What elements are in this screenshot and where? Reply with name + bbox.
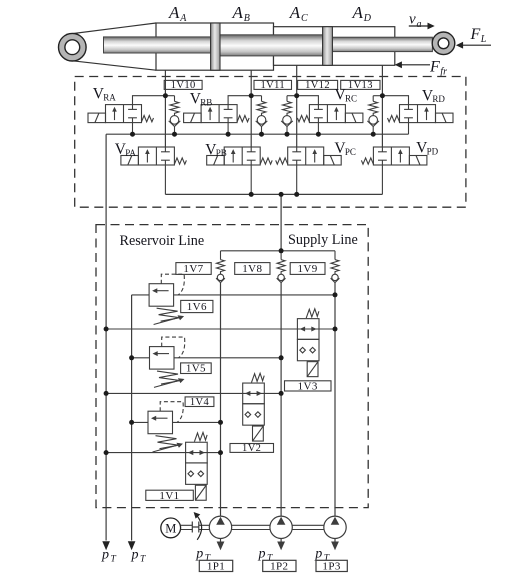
shaft 1P1 to 1P2: [232, 525, 270, 529]
svg-text:T: T: [111, 555, 117, 565]
check valve 1V8: [277, 251, 286, 283]
junction chamber B: [249, 93, 254, 98]
relief drain line (second left vertical): [131, 295, 133, 541]
junction chamber A: [163, 93, 168, 98]
svg-text:v: v: [409, 12, 416, 28]
relief valve 1V4: [148, 402, 183, 452]
wire 1V4 outlet to pump column 1: [173, 421, 221, 423]
svg-text:1V13: 1V13: [348, 80, 373, 91]
label Supply Line: [288, 232, 358, 248]
supply line drop: [280, 194, 282, 250]
wire 1V5 outlet to pump column 2: [174, 357, 281, 359]
check valve 1V10: [169, 96, 181, 135]
junction 1V3 line to reservoir: [104, 327, 109, 332]
svg-text:1V1: 1V1: [159, 490, 179, 502]
label p_T 3: [195, 547, 211, 564]
check valve 1V11: [256, 96, 268, 135]
svg-text:RB: RB: [200, 97, 212, 107]
junction 1V3 line to column 3: [333, 327, 338, 332]
svg-text:1V12: 1V12: [305, 80, 330, 91]
wire V_RA bottom port: [132, 123, 134, 135]
unloading line 1V1 (reservoir to column 1): [106, 452, 220, 454]
pump column 2 line: [280, 283, 282, 516]
label box 1V10: [164, 80, 202, 91]
junction V_RB to reservoir bus: [226, 132, 231, 137]
check valve 1V9: [331, 251, 340, 283]
junction 1V2 line to column 2: [279, 391, 284, 396]
junction 1V4 inlet to drain: [129, 420, 134, 425]
svg-text:p: p: [131, 548, 139, 563]
piston rod stage 2: [220, 35, 323, 56]
svg-text:p: p: [258, 547, 266, 562]
wire V_RC top port: [297, 96, 319, 105]
valve V_PB: [207, 147, 273, 165]
valve 1V3: [297, 309, 319, 377]
svg-text:RC: RC: [345, 93, 357, 103]
wire 1V6 outlet to pump column 3: [174, 294, 335, 296]
valve 1V1: [186, 432, 208, 500]
wire V_PC bottom port: [296, 165, 298, 194]
svg-text:Supply Line: Supply Line: [288, 232, 358, 248]
label box 1V4: [185, 397, 214, 408]
junction chamber D: [380, 93, 385, 98]
left mounting eye: [59, 33, 87, 61]
label box 1V12: [298, 80, 338, 91]
check valve 1V12: [281, 96, 293, 135]
svg-text:1V7: 1V7: [183, 263, 203, 275]
chamber B line: [250, 70, 252, 147]
chamber D line: [381, 65, 383, 147]
pump unit dashed enclosure: [96, 225, 368, 508]
label V_RD: [422, 87, 446, 104]
piston 1: [211, 23, 220, 70]
label A_B: [232, 3, 250, 24]
svg-text:L: L: [480, 34, 487, 45]
valve V_PC: [276, 147, 342, 165]
junction supply drop: [279, 192, 284, 197]
svg-text:A: A: [289, 3, 301, 22]
svg-text:1V6: 1V6: [187, 301, 207, 313]
pump column 1 line: [220, 283, 222, 516]
label box 1V7: [176, 263, 211, 276]
unloading line 1V3 (reservoir to column 3): [106, 328, 335, 330]
label box 1V13: [341, 80, 380, 91]
wire check 1V11 top link: [251, 95, 261, 97]
label Reservoir Line: [120, 233, 205, 249]
wire V_RB top port: [228, 96, 251, 105]
piston 2: [323, 27, 333, 66]
svg-text:F: F: [429, 59, 440, 76]
svg-text:A: A: [352, 3, 364, 22]
svg-text:p: p: [101, 548, 109, 563]
pump 1P1: [209, 516, 231, 550]
wire check 1V13 top link: [373, 95, 382, 97]
label V_PD: [416, 140, 439, 157]
valve V_PA: [121, 147, 187, 165]
label box 1V5: [181, 363, 212, 375]
junction check 1V12 to reservoir bus: [285, 132, 290, 137]
svg-text:PA: PA: [125, 148, 136, 158]
label V_PB: [205, 141, 227, 158]
label V_RC: [335, 87, 358, 104]
svg-text:1V5: 1V5: [186, 363, 206, 375]
wire 1V4 left port: [132, 421, 148, 423]
wire check 1V12 top link: [287, 95, 297, 97]
label V_PA: [115, 141, 137, 158]
junction check 1V10 to reservoir bus: [172, 132, 177, 137]
label box 1P3: [316, 560, 347, 572]
label p_T 4: [258, 547, 274, 564]
junction 1V6 outlet to column 3: [333, 292, 338, 297]
junction chamber C: [294, 93, 299, 98]
label p_T 5: [314, 547, 330, 564]
wire V_RC bottom port: [317, 123, 319, 135]
junction 1V5 outlet to column 2: [279, 355, 284, 360]
label box 1V11: [254, 80, 292, 91]
relief drain end arrow: [128, 541, 136, 550]
label box 1V6: [181, 300, 213, 313]
junction 1V1 line to reservoir: [104, 450, 109, 455]
reservoir line drop (left): [105, 134, 107, 540]
chamber C line: [296, 65, 298, 147]
svg-text:PC: PC: [345, 147, 356, 157]
svg-text:A: A: [168, 3, 180, 22]
junction check 1V11 to reservoir bus: [259, 132, 264, 137]
svg-text:PB: PB: [216, 148, 227, 158]
shaft coupling to pump 1P1: [199, 525, 210, 529]
junction check 1V13 to reservoir bus: [371, 132, 376, 137]
junction V_PC to supply bus: [294, 192, 299, 197]
junction 1V2 line to reservoir: [104, 391, 109, 396]
supply bus in valve box: [165, 193, 382, 195]
supply header: [221, 250, 336, 252]
wire V_RB bottom port: [227, 123, 229, 135]
wire 1V5 left port: [132, 357, 150, 359]
valve V_RC: [297, 105, 363, 123]
svg-text:PD: PD: [427, 147, 439, 157]
svg-text:1V11: 1V11: [261, 80, 286, 91]
check valve 1V7: [216, 251, 225, 283]
label box 1V9: [290, 263, 325, 276]
label p_T 2: [131, 548, 147, 565]
label box 1P2: [263, 560, 296, 572]
junction 1V5 inlet to drain: [129, 355, 134, 360]
svg-text:1P1: 1P1: [207, 561, 225, 573]
velocity v_a label and arrow: [409, 12, 435, 30]
valve V_RD: [388, 105, 454, 123]
svg-text:1V3: 1V3: [298, 381, 318, 393]
wire check 1V10 top link: [165, 95, 174, 97]
junction 1V1 line to column 1: [218, 450, 223, 455]
svg-text:A: A: [179, 13, 187, 24]
electric motor M: [161, 518, 181, 538]
relief valve 1V6: [149, 274, 184, 324]
svg-text:M: M: [165, 521, 176, 535]
valve V_RB: [184, 105, 250, 123]
valve V_PD: [361, 147, 427, 165]
check valve 1V13: [367, 96, 379, 135]
svg-text:1V2: 1V2: [242, 443, 261, 454]
relief valve 1V5: [150, 337, 185, 387]
label box 1V2: [230, 443, 274, 454]
junction 1V4 outlet to column 1: [218, 420, 223, 425]
cylinder barrel stage 2 (chambers C,D): [274, 27, 395, 66]
junction V_RA to reservoir bus: [130, 132, 135, 137]
wire V_PB bottom port: [250, 165, 252, 194]
label V_PC: [334, 140, 356, 157]
rotation direction arrow: [194, 512, 202, 540]
label A_D: [352, 3, 372, 24]
svg-text:1P3: 1P3: [322, 561, 340, 573]
unloading line 1V2 (reservoir to column 2): [106, 392, 281, 394]
junction V_PB to supply bus: [249, 192, 254, 197]
svg-text:B: B: [244, 13, 250, 24]
label A_A: [168, 3, 187, 24]
svg-text:a: a: [417, 19, 422, 30]
svg-text:T: T: [140, 555, 146, 565]
reservoir bus in valve box: [106, 133, 408, 135]
label box 1P1: [199, 560, 232, 572]
right rod eye: [432, 32, 455, 55]
shaft motor to coupling: [181, 525, 193, 529]
svg-text:1V9: 1V9: [298, 263, 318, 275]
label box 1V3: [285, 381, 332, 393]
wire V_RD bottom port: [408, 123, 410, 135]
pump 1P2: [270, 516, 292, 550]
pump column 3 line: [334, 283, 336, 516]
cylinder barrel stage 1 (chambers A,B): [156, 23, 274, 70]
svg-text:1V4: 1V4: [190, 397, 210, 408]
label V_RA: [93, 86, 117, 103]
friction force F_fr label and arrow: [395, 59, 447, 78]
pump 1P3: [324, 516, 346, 550]
svg-text:RD: RD: [432, 94, 445, 104]
svg-text:1V10: 1V10: [171, 80, 196, 91]
svg-text:A: A: [232, 3, 244, 22]
label p_T 1: [101, 548, 117, 565]
valve 1V2: [243, 373, 265, 441]
piston rod stage 1: [104, 37, 211, 53]
svg-text:Reservoir Line: Reservoir Line: [120, 233, 205, 249]
clevis taper: [67, 23, 157, 70]
junction V_RC to reservoir bus: [316, 132, 321, 137]
shaft coupling: [192, 522, 199, 533]
wire V_RD top port: [382, 96, 408, 105]
wire V_PD bottom port: [381, 165, 383, 194]
svg-text:p: p: [195, 547, 203, 562]
reservoir line end arrow (left): [102, 541, 110, 550]
svg-text:RA: RA: [103, 92, 116, 102]
label box 1V1: [146, 490, 194, 502]
svg-text:D: D: [363, 13, 372, 24]
svg-text:p: p: [314, 547, 322, 562]
wire 1V6 left port: [132, 294, 150, 296]
shaft 1P2 to 1P3: [292, 525, 324, 529]
label V_RB: [190, 91, 213, 108]
svg-text:C: C: [301, 13, 308, 24]
svg-text:1P2: 1P2: [270, 561, 288, 573]
chamber A line: [164, 70, 166, 147]
svg-text:F: F: [470, 26, 481, 43]
svg-text:1V8: 1V8: [242, 263, 262, 275]
wire V_RA top port: [133, 96, 166, 105]
label box 1V8: [235, 263, 270, 276]
wire V_PA bottom port: [164, 165, 166, 194]
valve V_RA: [88, 105, 154, 123]
piston rod stage 3: [332, 37, 432, 51]
junction supply header: [279, 248, 284, 253]
valve manifold dashed enclosure: [75, 77, 466, 208]
label A_C: [289, 3, 308, 24]
load force F_L label and arrow: [456, 26, 491, 49]
